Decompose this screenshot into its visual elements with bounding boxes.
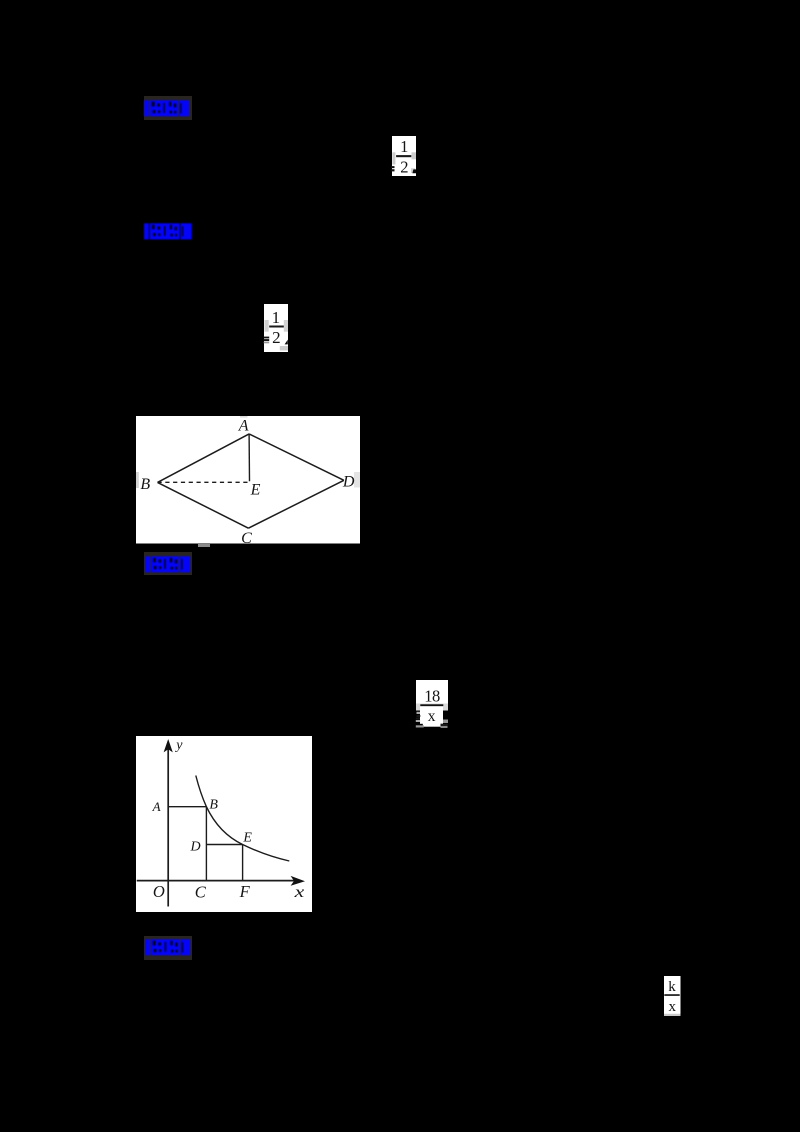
svg-text:B: B xyxy=(209,798,218,813)
label answer1 blue text xyxy=(144,100,190,117)
gray band xyxy=(416,704,448,711)
segment B to C xyxy=(205,807,207,881)
svg-text:2: 2 xyxy=(400,157,408,176)
svg-text:B: B xyxy=(140,476,150,493)
svg-text:1: 1 xyxy=(400,137,408,156)
label point4 highlight xyxy=(144,936,192,960)
fraction bar xyxy=(420,704,443,706)
label analysis2 blue text xyxy=(144,223,192,240)
svg-text:2: 2 xyxy=(272,328,281,347)
bottom white tab xyxy=(423,724,441,727)
notch artifact xyxy=(412,169,416,173)
segment E to F xyxy=(242,845,244,881)
equals artifact xyxy=(391,166,395,168)
label detail3 highlight xyxy=(144,552,193,576)
diagonal AE solid xyxy=(248,434,250,481)
segment A to B xyxy=(168,806,206,808)
fraction 1/2 second xyxy=(263,304,289,352)
fraction bar xyxy=(664,994,679,996)
rhombus side AD xyxy=(249,434,344,480)
fraction bar xyxy=(396,155,411,157)
svg-text:x: x xyxy=(669,999,677,1015)
x-axis xyxy=(137,880,294,882)
segment D to E xyxy=(206,844,242,846)
fraction 1/2 first xyxy=(391,136,417,176)
gray artifact under rhombus box xyxy=(198,544,210,548)
comma wedge artifact xyxy=(285,340,288,345)
upper white rect xyxy=(416,680,448,704)
svg-text:y: y xyxy=(174,738,183,753)
svg-text:F: F xyxy=(239,882,251,901)
svg-text:1: 1 xyxy=(272,308,281,327)
svg-text:C: C xyxy=(241,530,252,544)
label answer1 highlight xyxy=(144,96,193,120)
svg-text:A: A xyxy=(238,417,249,434)
svg-text:O: O xyxy=(153,882,165,901)
svg-text:D: D xyxy=(342,474,355,491)
rhombus side AB xyxy=(158,434,250,483)
rhombus side CD xyxy=(248,480,344,528)
svg-text:D: D xyxy=(190,840,201,855)
fraction bar xyxy=(269,326,284,328)
right artifacts xyxy=(443,720,448,724)
gray artifact left edge near B xyxy=(136,472,139,488)
svg-text:x: x xyxy=(293,884,304,902)
gray artifact right of D xyxy=(354,472,360,488)
graph diagram box xyxy=(136,736,312,912)
x-axis arrowhead xyxy=(291,876,305,886)
svg-text:C: C xyxy=(195,882,207,901)
rhombus diagram box xyxy=(136,416,360,544)
label point4 blue text xyxy=(145,939,190,956)
svg-text:E: E xyxy=(242,831,252,846)
label detail3 blue text xyxy=(145,556,191,573)
diagonal BE dashed xyxy=(158,481,250,483)
svg-text:k: k xyxy=(668,979,676,995)
lower white rect xyxy=(420,707,443,724)
y-axis xyxy=(167,749,169,907)
svg-text:A: A xyxy=(152,799,161,814)
left artifacts xyxy=(417,712,421,714)
equals artifact xyxy=(264,337,270,339)
fraction k/x xyxy=(664,976,681,1016)
svg-text:18: 18 xyxy=(424,687,440,706)
hyperbola curve xyxy=(196,776,289,862)
y-axis arrowhead xyxy=(164,739,173,752)
rhombus side BC xyxy=(158,482,249,528)
svg-text:E: E xyxy=(250,481,261,498)
svg-text:x: x xyxy=(428,708,436,725)
fraction 18/x xyxy=(415,680,449,728)
gray artifact above A xyxy=(240,416,248,418)
